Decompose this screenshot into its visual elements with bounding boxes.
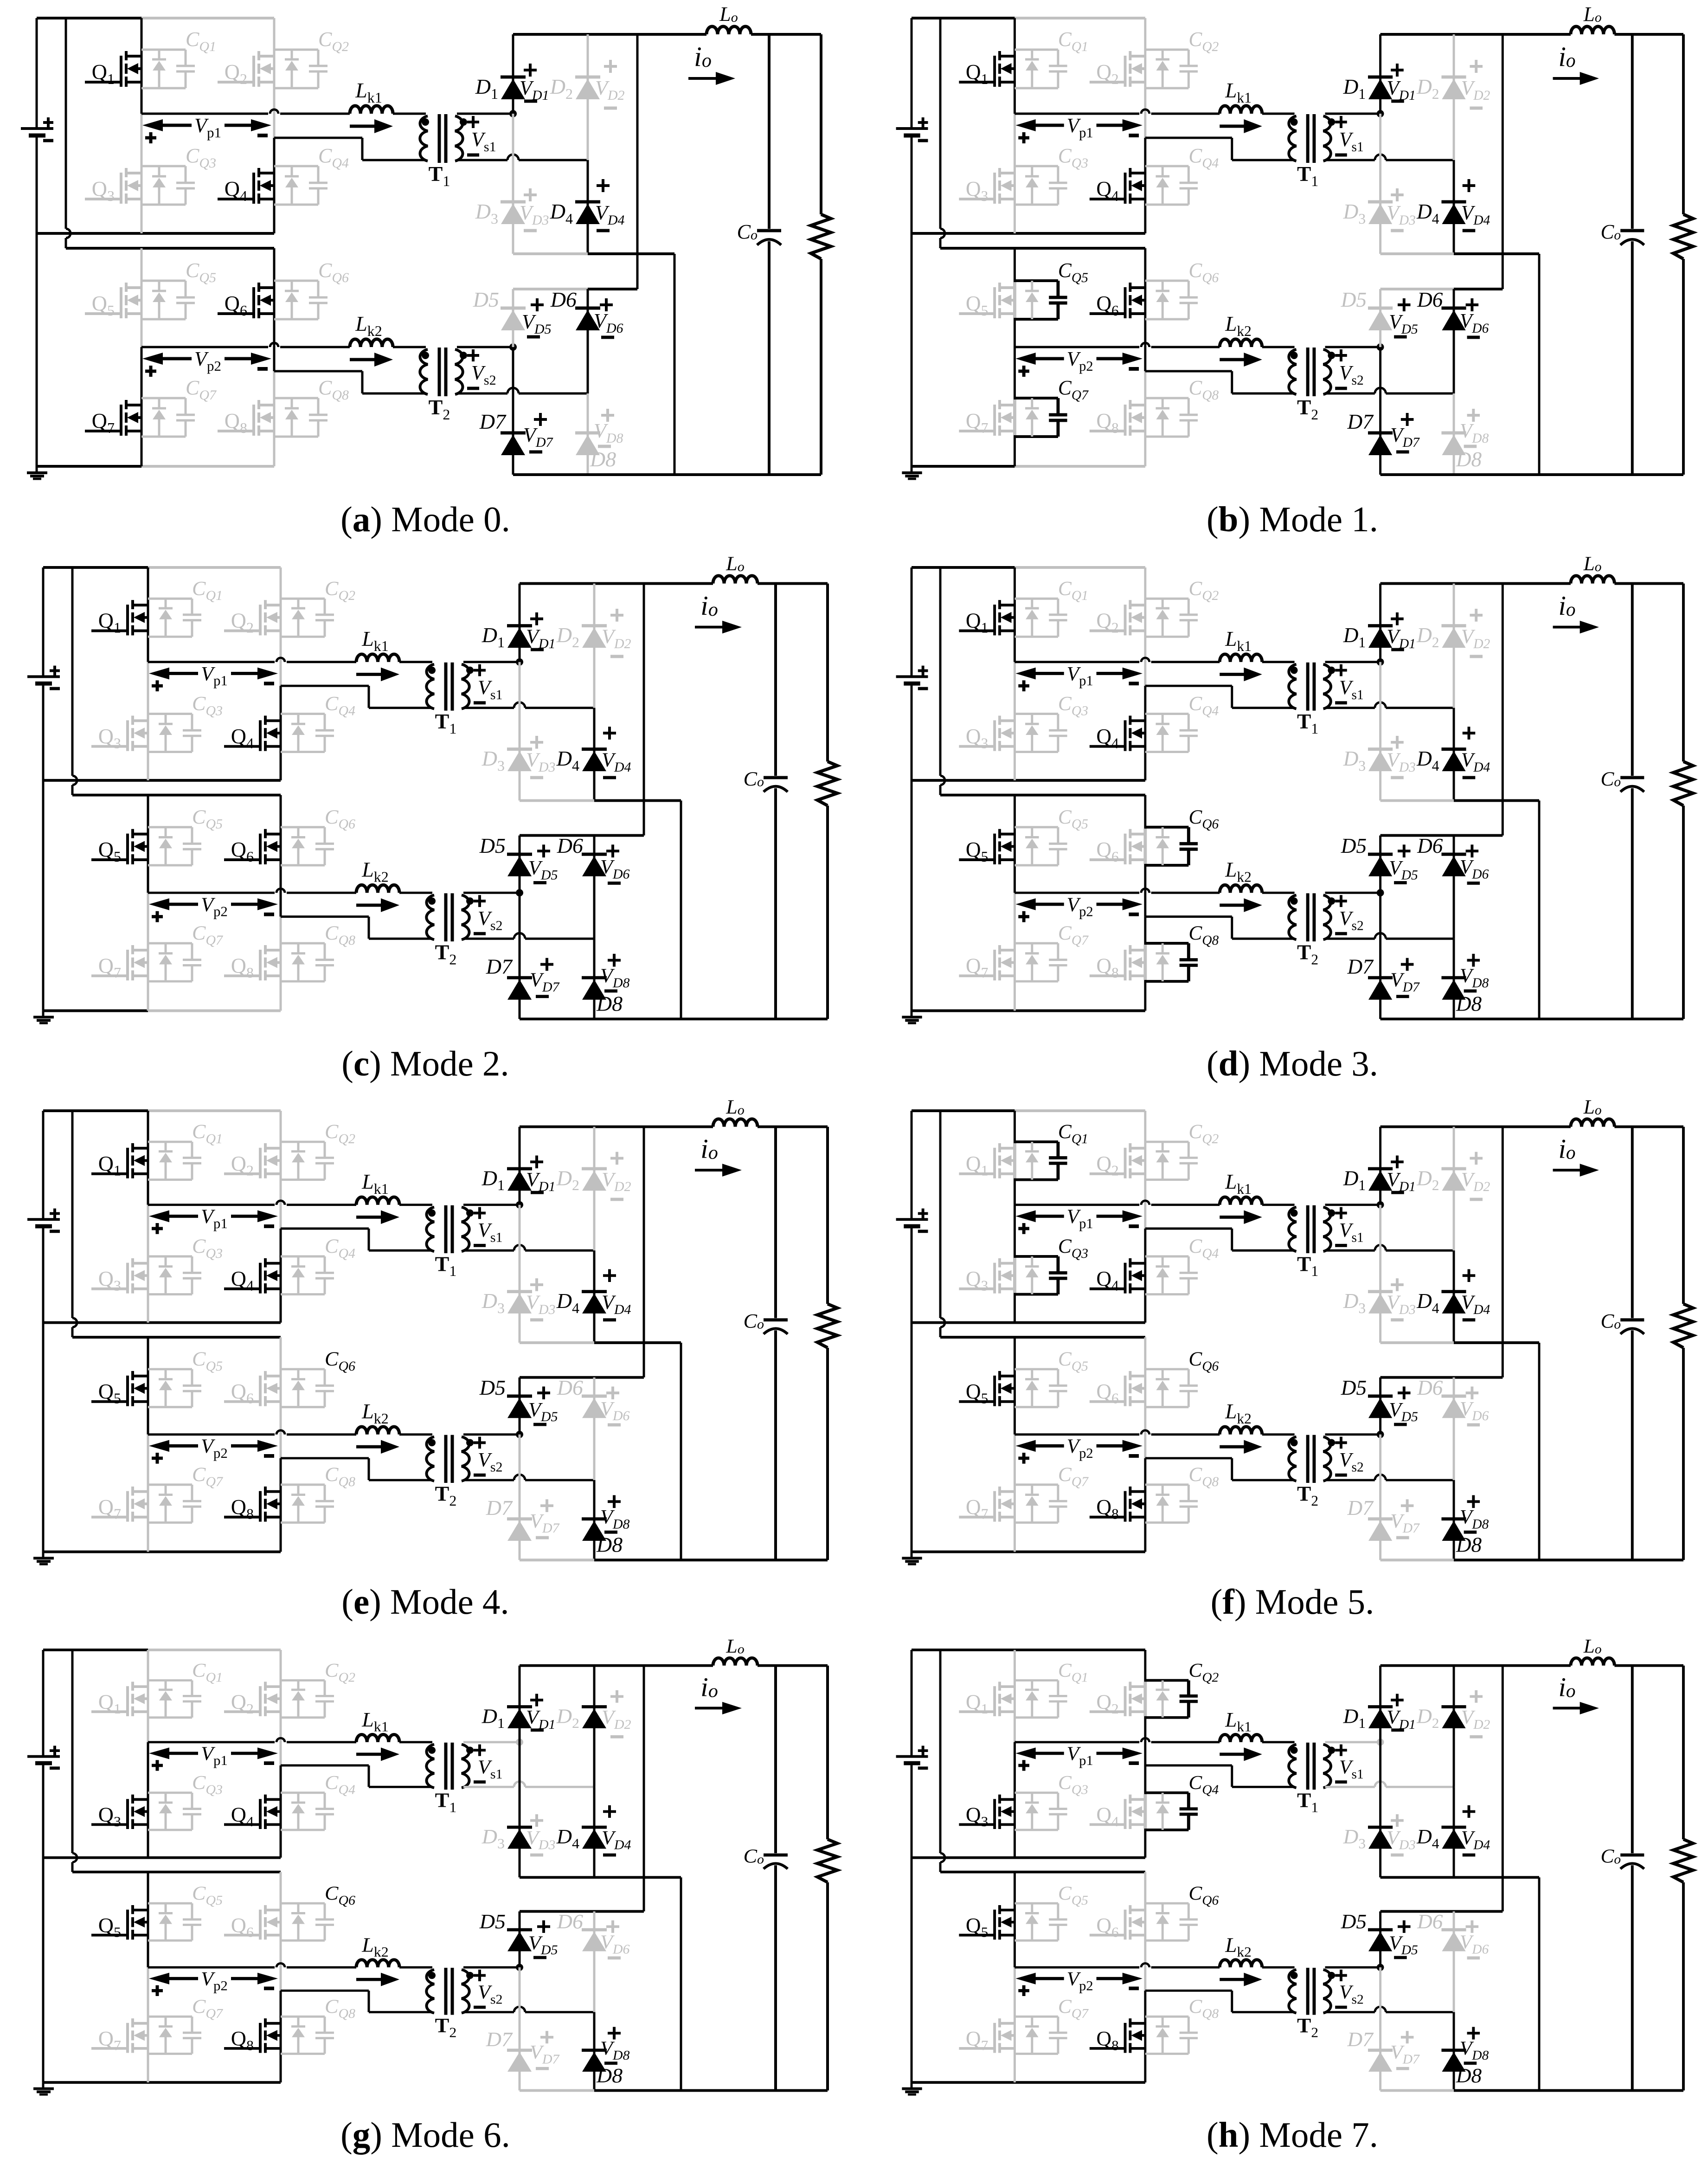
svg-text:D6: D6 <box>1417 1376 1443 1399</box>
svg-text:D8: D8 <box>596 992 623 1016</box>
svg-text:D8: D8 <box>1456 447 1482 471</box>
svg-text:D5: D5 <box>1341 834 1367 857</box>
svg-text:D7: D7 <box>1347 1496 1374 1520</box>
svg-text:D6: D6 <box>1417 834 1443 857</box>
svg-text:D5: D5 <box>479 1910 506 1933</box>
svg-text:D5: D5 <box>479 834 506 857</box>
svg-text:(b) Mode 1.: (b) Mode 1. <box>1207 499 1378 539</box>
svg-text:D5: D5 <box>1341 1910 1367 1933</box>
svg-text:D6: D6 <box>557 834 583 857</box>
svg-text:D7: D7 <box>1347 2028 1374 2051</box>
svg-text:D5: D5 <box>1341 1376 1367 1399</box>
svg-text:D6: D6 <box>550 288 577 311</box>
svg-text:D5: D5 <box>473 288 499 311</box>
svg-text:(h) Mode 7.: (h) Mode 7. <box>1207 2115 1378 2155</box>
svg-text:(g) Mode 6.: (g) Mode 6. <box>340 2115 510 2155</box>
svg-text:(e) Mode 4.: (e) Mode 4. <box>341 1582 509 1622</box>
svg-text:D6: D6 <box>1417 1910 1443 1933</box>
svg-text:D6: D6 <box>1417 288 1443 311</box>
svg-text:D8: D8 <box>596 2064 623 2087</box>
svg-text:D6: D6 <box>557 1376 583 1399</box>
svg-text:D7: D7 <box>1347 410 1374 433</box>
svg-text:(c) Mode 2.: (c) Mode 2. <box>341 1043 509 1083</box>
svg-text:D7: D7 <box>486 2028 514 2051</box>
svg-text:(d) Mode 3.: (d) Mode 3. <box>1207 1043 1378 1083</box>
svg-text:D5: D5 <box>479 1376 506 1399</box>
svg-text:D8: D8 <box>1456 992 1482 1015</box>
svg-text:D7: D7 <box>1347 955 1374 978</box>
svg-text:D6: D6 <box>557 1910 584 1933</box>
svg-text:D5: D5 <box>1341 288 1367 311</box>
svg-text:D7: D7 <box>486 1496 513 1520</box>
svg-text:D8: D8 <box>590 447 616 471</box>
svg-text:D7: D7 <box>479 410 507 433</box>
svg-text:D7: D7 <box>486 954 513 978</box>
svg-text:D8: D8 <box>1456 1533 1482 1557</box>
svg-text:D8: D8 <box>596 1533 623 1557</box>
svg-text:D8: D8 <box>1456 2064 1482 2087</box>
svg-text:(f) Mode 5.: (f) Mode 5. <box>1211 1582 1374 1622</box>
svg-text:(a) Mode 0.: (a) Mode 0. <box>340 499 510 539</box>
